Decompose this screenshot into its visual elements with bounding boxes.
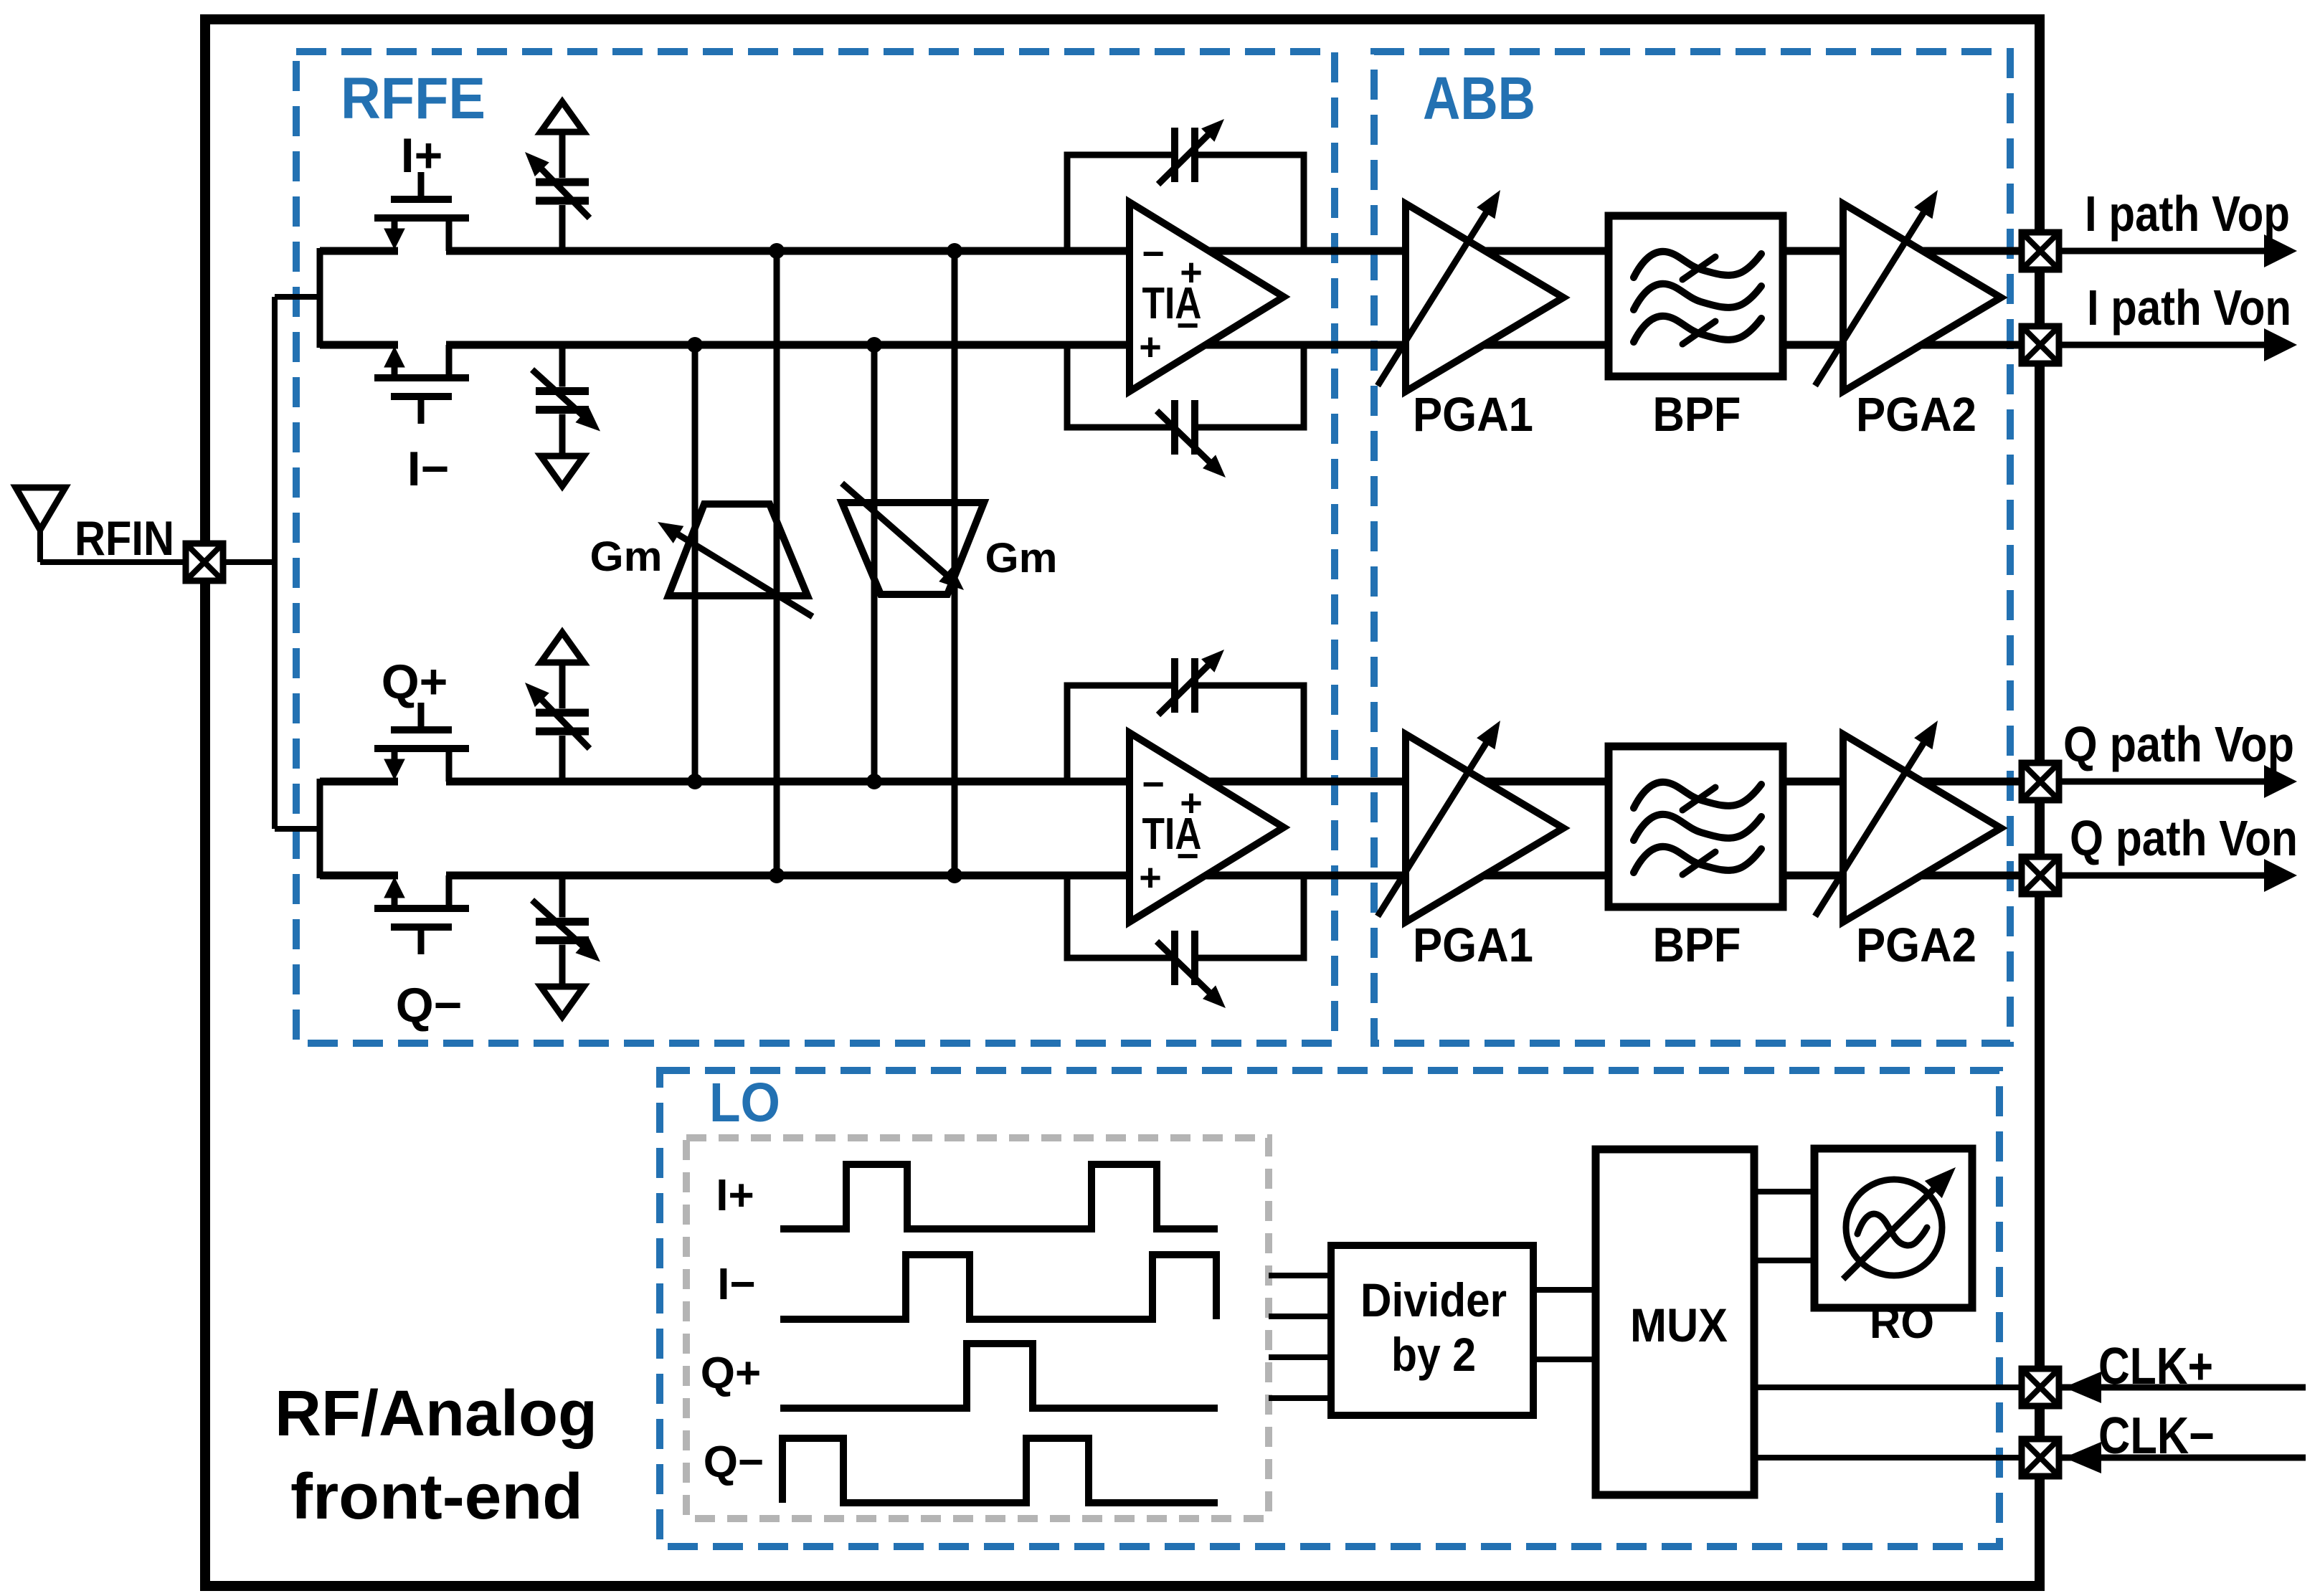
svg-text:ABB: ABB xyxy=(1423,65,1535,132)
capacitor varactor I path to ground xyxy=(559,345,566,387)
wire output Q path Vop with arrow xyxy=(2059,779,2277,785)
wire output I path Vop with arrow xyxy=(2059,248,2277,255)
capacitor variable feedback cap bottom xyxy=(1171,400,1178,455)
svg-text:+: + xyxy=(1139,326,1162,369)
transistor mixer switch I+ xyxy=(418,172,425,196)
wire I path top rail xyxy=(446,247,2040,255)
node junction xyxy=(687,337,703,353)
filter BPF (I path) xyxy=(1609,216,1783,376)
capacitor variable feedback cap bottom xyxy=(1171,931,1178,985)
wire antenna to RFIN port xyxy=(40,559,186,565)
wire trunk to Q mixer xyxy=(275,826,320,832)
wire Gm cell 2 left leg xyxy=(871,345,878,782)
svg-text:CLK−: CLK− xyxy=(2098,1407,2215,1465)
transistor mixer switch Q&#8722; xyxy=(418,931,425,954)
svg-text:−: − xyxy=(1142,763,1165,806)
svg-text:PGA1: PGA1 xyxy=(1413,918,1533,972)
node junction xyxy=(947,243,962,259)
wire Q path input vertical xyxy=(317,779,323,878)
port output Q path Von (crossbox) xyxy=(2022,857,2059,894)
wire TIA feedback loop top xyxy=(1067,685,1171,782)
capacitor varactor Q path to ground xyxy=(559,875,566,918)
wire I path bottom rail xyxy=(446,341,2040,349)
wire output I path Von with arrow xyxy=(2059,342,2277,348)
port output Q path Vop (crossbox) xyxy=(2022,763,2059,800)
svg-text:Q−: Q− xyxy=(396,978,463,1032)
svg-text:I+: I+ xyxy=(716,1171,754,1220)
wire divider to MUX 2 xyxy=(1533,1357,1596,1362)
svg-text:RO: RO xyxy=(1870,1298,1934,1348)
block MUX xyxy=(1596,1149,1754,1495)
svg-text:I path Vop: I path Vop xyxy=(2085,186,2290,242)
wire Q path top rail xyxy=(446,778,2040,786)
svg-text:BPF: BPF xyxy=(1653,387,1741,442)
wire splitter trunk vertical xyxy=(272,297,278,829)
waveform LO I&#8722; xyxy=(780,1255,1216,1319)
svg-text:Q+: Q+ xyxy=(382,655,448,709)
wire divider to MUX 1 xyxy=(1533,1287,1596,1293)
node junction xyxy=(866,774,882,789)
RFFE dashed region box xyxy=(296,52,1335,1043)
wire Gm cell 2 right leg xyxy=(952,251,958,875)
wire TIA feedback loop bottom xyxy=(1067,345,1171,427)
svg-text:Q path Von: Q path Von xyxy=(2070,810,2298,866)
capacitor varactor I path to VDD xyxy=(559,132,566,178)
filter BPF (Q path) xyxy=(1609,746,1783,907)
wire Gm cell 1 right leg xyxy=(774,251,780,875)
svg-text:PGA2: PGA2 xyxy=(1856,918,1976,972)
svg-text:LO: LO xyxy=(709,1072,780,1134)
svg-text:I+: I+ xyxy=(401,128,443,183)
svg-text:+: + xyxy=(1139,856,1162,899)
port output I path Von (crossbox) xyxy=(2022,326,2059,364)
wire TIA feedback loop bottom xyxy=(1067,875,1171,958)
wire RFIN port to splitter trunk xyxy=(223,559,275,565)
wire MUX to CLK+ port xyxy=(1754,1384,2022,1390)
node junction xyxy=(769,243,785,259)
oscillator RO (ring oscillator) xyxy=(1814,1149,1972,1308)
wire CLK+ input with arrow xyxy=(2059,1384,2306,1391)
wire trunk to I mixer xyxy=(275,294,320,300)
port CLK+ (crossbox) xyxy=(2022,1369,2059,1406)
svg-text:−: − xyxy=(1176,304,1199,347)
port CLK&#8722; (crossbox) xyxy=(2022,1439,2059,1476)
chip outer border (RF/Analog front-end boundary) xyxy=(205,19,2040,1586)
svg-text:PGA1: PGA1 xyxy=(1413,388,1533,442)
svg-text:RFIN: RFIN xyxy=(75,511,174,566)
port output I path Vop (crossbox) xyxy=(2022,232,2059,270)
LO dashed region box xyxy=(660,1070,1999,1547)
svg-text:PGA2: PGA2 xyxy=(1856,388,1976,442)
wire LO phases to divider 1 xyxy=(1269,1273,1331,1278)
wire MUX to RO 2 xyxy=(1754,1258,1814,1263)
svg-text:BPF: BPF xyxy=(1653,918,1741,972)
wire I path bottom rail (left of mixer) xyxy=(320,341,398,349)
waveform LO Q&#8722; xyxy=(782,1438,1218,1503)
block Divider by 2 xyxy=(1331,1245,1533,1415)
power VDD symbol (Q path) xyxy=(541,632,584,662)
ABB dashed region box xyxy=(1374,52,2010,1043)
port RFIN (crossbox on chip edge) xyxy=(186,543,223,581)
wire I path input vertical xyxy=(317,248,323,348)
capacitor variable feedback cap top xyxy=(1171,658,1178,713)
antenna RFIN xyxy=(16,488,65,530)
wire Gm cell 1 left leg xyxy=(692,345,699,782)
svg-text:Divider: Divider xyxy=(1360,1273,1507,1326)
wire MUX to RO 1 xyxy=(1754,1189,1814,1194)
transistor mixer switch Q+ xyxy=(418,703,425,726)
svg-text:Q path Vop: Q path Vop xyxy=(2063,716,2294,772)
wire Q path top rail (left of mixer) xyxy=(320,778,398,786)
amplifier PGA2 (I path) xyxy=(1843,204,2001,391)
wire LO phases to divider 2 xyxy=(1269,1314,1331,1319)
amplifier PGA1 (I path) xyxy=(1406,204,1563,391)
capacitor varactor Q path to VDD xyxy=(559,662,566,708)
transconductor Gm 1 (variable) xyxy=(668,504,808,596)
wire LO phases to divider 4 xyxy=(1269,1395,1331,1401)
waveform LO I+ xyxy=(780,1164,1218,1229)
svg-text:Q+: Q+ xyxy=(701,1349,761,1398)
wire TIA feedback loop top xyxy=(1067,155,1171,251)
svg-text:Q−: Q− xyxy=(704,1438,764,1487)
svg-text:RF/Analog: RF/Analog xyxy=(275,1378,597,1450)
svg-text:I path Von: I path Von xyxy=(2087,280,2291,336)
svg-text:I−: I− xyxy=(407,442,450,496)
amplifier PGA2 (Q path) xyxy=(1843,734,2001,922)
wire LO phases to divider 3 xyxy=(1269,1354,1331,1360)
wire Q path bottom rail xyxy=(446,872,2040,880)
wire CLK&#8722; input with arrow xyxy=(2059,1455,2306,1461)
svg-text:RFFE: RFFE xyxy=(341,66,486,131)
node junction xyxy=(687,774,703,789)
svg-text:front-end: front-end xyxy=(290,1461,583,1533)
svg-text:MUX: MUX xyxy=(1630,1298,1728,1352)
svg-text:by 2: by 2 xyxy=(1391,1328,1476,1381)
svg-text:−: − xyxy=(1142,232,1165,275)
svg-text:+: + xyxy=(1180,782,1203,825)
node junction xyxy=(866,337,882,353)
LO waveform gray dashed box xyxy=(686,1138,1269,1519)
svg-text:CLK+: CLK+ xyxy=(2098,1338,2213,1395)
svg-text:Gm: Gm xyxy=(590,533,663,580)
waveform LO Q+ xyxy=(780,1344,1218,1408)
wire Q path bottom rail (left of mixer) xyxy=(320,872,398,880)
transconductor Gm 2 (variable) xyxy=(842,503,984,594)
ground symbol (Q path) xyxy=(541,987,584,1017)
svg-text:Gm: Gm xyxy=(985,535,1058,581)
svg-text:+: + xyxy=(1180,251,1203,294)
op-amp TIA xyxy=(1130,202,1284,391)
wire MUX to CLK&#8722; port xyxy=(1754,1455,2022,1460)
op-amp TIA xyxy=(1130,733,1284,922)
wire output Q path Von with arrow xyxy=(2059,873,2277,879)
node junction xyxy=(947,868,962,883)
svg-text:−: − xyxy=(1176,835,1199,878)
power VDD symbol (I path) xyxy=(541,102,584,132)
capacitor variable feedback cap top xyxy=(1171,128,1178,182)
svg-text:I−: I− xyxy=(717,1260,755,1309)
transistor mixer switch I&#8722; xyxy=(418,400,425,424)
node junction xyxy=(769,868,785,883)
amplifier PGA1 (Q path) xyxy=(1406,734,1563,922)
ground symbol (I path) xyxy=(541,456,584,486)
wire I path top rail (left of mixer) xyxy=(320,247,398,255)
